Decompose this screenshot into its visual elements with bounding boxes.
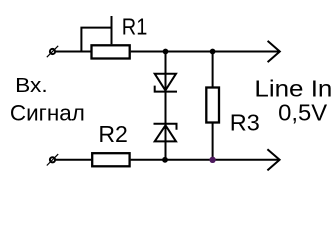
wire R1 wiper tap loop xyxy=(81,28,111,52)
node junction bottom-right (R3 branch, purple) xyxy=(209,157,215,163)
svg-text:Вх.: Вх. xyxy=(15,75,48,97)
diode VD2 (zener, cathode up) xyxy=(154,124,177,142)
wire bottom-left (terminal to R2) xyxy=(56,159,91,161)
node junction top-left (diode branch) xyxy=(163,49,169,55)
arrow top (Line In output) xyxy=(268,41,280,62)
wire top rail (R1 to arrow) xyxy=(131,51,279,53)
resistor R1 (trimmer body) xyxy=(92,45,130,58)
resistor R2 (body) xyxy=(92,153,129,166)
node junction bottom-left (diode branch) xyxy=(162,157,168,163)
node junction top-right (R3 branch) xyxy=(210,49,216,55)
resistor R3 (vertical body) xyxy=(206,88,219,123)
wire R3 branch lower xyxy=(212,124,214,161)
svg-text:R3: R3 xyxy=(230,109,260,135)
svg-text:R2: R2 xyxy=(98,121,128,147)
svg-text:Line In: Line In xyxy=(254,75,332,101)
arrow bottom (Line In output) xyxy=(267,149,279,170)
wire diode branch vertical xyxy=(165,52,167,161)
wire top-left (terminal to R1) xyxy=(56,51,91,53)
wire R3 branch upper xyxy=(212,52,214,87)
diode VD1 (zener, cathode down) xyxy=(155,74,177,92)
wire R1 wiper vertical xyxy=(111,16,113,44)
terminal X1 (input top) xyxy=(47,46,58,57)
svg-text:Сигнал: Сигнал xyxy=(10,100,85,125)
terminal X2 (input bottom) xyxy=(47,154,58,165)
svg-text:R1: R1 xyxy=(122,13,148,39)
svg-text:0,5V: 0,5V xyxy=(278,99,328,125)
wire bottom rail (R2 to arrow) xyxy=(131,159,279,161)
